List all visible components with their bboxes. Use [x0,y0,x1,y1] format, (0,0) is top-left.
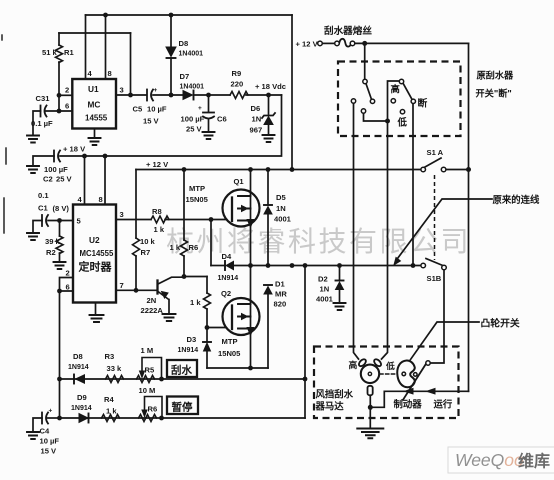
edge mark top left [1,35,3,40]
svg-text:MR: MR [275,290,287,299]
fuse terminals [335,41,340,46]
wire contact P6 to sense rail [412,104,414,264]
motor wiper [361,365,379,383]
svg-text:C1: C1 [38,204,48,213]
diode D9 [79,414,88,423]
svg-text:1N4001: 1N4001 [179,51,204,58]
svg-text:+ 18 V: + 18 V [63,145,86,154]
wire fuse to right corner [355,42,469,44]
pause label box [167,397,198,415]
svg-text:2: 2 [66,269,70,278]
svg-text:C5: C5 [133,105,143,114]
potentiometer R6b [139,415,157,422]
svg-text:0.1 µF: 0.1 µF [31,119,53,128]
arrow brake pointer [405,389,414,395]
svg-text:R9: R9 [232,69,242,78]
svg-text:14555: 14555 [85,114,108,123]
svg-text:开关"断": 开关"断" [476,88,512,99]
svg-text:C31: C31 [36,94,51,103]
wire +18V loop to C2 [60,95,282,156]
svg-text:暂停: 暂停 [172,401,193,414]
arrow run pointer [427,389,436,395]
ground C1 [27,233,39,240]
diode D8 [170,15,172,47]
svg-text:51 k: 51 k [42,48,58,57]
timer U2 box [73,205,116,303]
wire pause line [60,417,306,419]
ground R2 [54,262,66,269]
resistor R3 [106,376,124,383]
wire U1 ground stub [94,129,96,138]
dashed box wiper motor [314,347,459,419]
diode D3 [206,328,208,342]
svg-text:断: 断 [418,97,428,110]
svg-text:MTP: MTP [222,337,238,346]
switch lever2 [403,84,411,99]
wire contact P4 L [364,113,388,121]
wire U1 pin4 [85,15,87,79]
svg-text:8: 8 [99,195,103,204]
ground C4 [27,432,39,439]
svg-text:2: 2 [65,86,69,95]
svg-text:D4: D4 [222,252,232,261]
mosfet Q1 [223,190,260,227]
svg-text:R1: R1 [64,48,74,57]
wire U2 pin3 [116,219,151,221]
resistor R9 [230,92,248,99]
cam pivot circles [402,372,406,376]
switch contact P1 [363,79,367,83]
wire switch riser to P5 [388,81,400,121]
svg-text:+ 12 V: + 12 V [146,160,169,169]
watermark WeeQoo box [448,447,554,473]
svg-text:1N914: 1N914 [68,364,89,371]
svg-text:D1: D1 [275,280,285,289]
switch S1B lever [426,259,442,266]
svg-text:维库: 维库 [518,452,550,471]
wire U1 pin8 [105,15,107,79]
svg-text:D2: D2 [318,275,328,284]
svg-text:967: 967 [250,126,263,135]
resistor 1k Q2 gate [206,277,208,328]
svg-text:3: 3 [120,210,124,219]
edge mark left lower [3,198,5,233]
switch contact P2 [370,99,374,103]
wire collector node [184,276,207,278]
ground D6 [263,135,275,142]
svg-text:6: 6 [66,283,70,292]
resistor R1 [58,33,60,95]
wire U2 pin2 pin6 bus [60,278,74,419]
svg-text:+ 12 V: + 12 V [296,40,319,49]
svg-text:820: 820 [274,300,287,309]
svg-text:U1: U1 [88,84,99,94]
dashed link S1A S1B [434,175,436,260]
wire timing node vertical [304,266,306,419]
svg-text:Q1: Q1 [234,177,245,186]
wire S1B to cam contact [430,270,444,363]
wire run line [370,391,468,407]
switch contact P3 [351,99,355,103]
resistor R2 [59,221,61,262]
svg-text:1N: 1N [276,204,286,213]
svg-text:R3: R3 [105,352,115,361]
svg-text:MTP: MTP [189,184,205,193]
switch S1B contacts [421,263,426,268]
mosfet Q2 [223,298,260,335]
wire U2 pin7 [116,289,158,291]
svg-text:器马达: 器马达 [315,401,345,412]
svg-text:1 k: 1 k [190,298,201,307]
svg-text:100 µF: 100 µF [44,165,68,174]
wire U1 pin6 [45,95,72,111]
svg-text:定时器: 定时器 [79,260,113,274]
capacitor C5 [146,90,148,101]
diode D5 [267,170,269,205]
resistor R8 [151,216,169,223]
svg-text:制动器: 制动器 [394,399,423,410]
svg-text:1 k: 1 k [154,225,165,234]
svg-text:3: 3 [120,86,124,95]
svg-text:10 µF: 10 µF [147,105,167,114]
svg-text:高: 高 [349,359,358,370]
svg-text:D8: D8 [179,39,189,48]
wire Q2 source node [207,367,268,369]
cam switch lever [403,364,426,400]
wire S1A to corner [446,169,469,171]
svg-text:低: 低 [385,360,395,371]
svg-text:7: 7 [120,281,124,290]
svg-text:Q2: Q2 [221,289,231,298]
ground D2 [334,303,346,310]
capacitor C2 [53,151,55,162]
svg-text:2N: 2N [147,296,157,305]
switch lever1 [366,84,371,99]
svg-text:8: 8 [108,69,112,78]
svg-text:1 M: 1 M [141,346,154,355]
svg-text:MC: MC [88,100,101,110]
svg-text:100 µF: 100 µF [181,115,205,124]
svg-text:R6: R6 [189,243,199,252]
switch S1A lever [425,158,441,167]
capacitor C6 [208,95,210,112]
svg-text:220: 220 [231,80,244,89]
wire motor brush dashed low [380,373,397,375]
wire U1 pin2 [59,94,72,96]
resistor R4 [102,415,120,422]
wire +12V rail [136,169,421,171]
ground motor [369,407,371,427]
svg-text:MC14555: MC14555 [80,249,114,258]
diode D8b 1N914 [73,375,75,384]
switch contact P7 [391,99,395,103]
svg-text:高: 高 [391,84,400,95]
svg-text:R7: R7 [141,248,151,257]
svg-text:4001: 4001 [274,215,292,224]
svg-text:1N914: 1N914 [218,275,239,282]
svg-text:D8: D8 [73,352,83,361]
svg-text:C2: C2 [43,175,53,184]
svg-text:10 µF: 10 µF [40,437,60,446]
svg-text:+ 18 Vdc: + 18 Vdc [255,82,286,91]
wire top +12V rail U1 [86,14,293,16]
svg-text:D3: D3 [187,335,197,344]
svg-text:+: + [198,105,202,112]
svg-text:15 V: 15 V [41,447,58,456]
svg-text:6: 6 [65,102,69,111]
svg-text:R4: R4 [104,395,114,404]
svg-text:25 V: 25 V [186,125,203,134]
svg-text:风挡刮水: 风挡刮水 [316,389,354,400]
svg-text:C4: C4 [40,427,50,436]
svg-text:低: 低 [397,117,408,128]
svg-text:C6: C6 [217,115,227,124]
svg-text:原刮水器: 原刮水器 [477,70,515,81]
ground C2 [27,166,39,173]
cam contact run [426,361,430,365]
svg-text:10 M: 10 M [139,386,156,395]
wire fuse feed [322,42,335,44]
ground C31 [27,136,39,143]
wire pin3 feedback vertical [130,33,132,95]
wire motor bottom [369,395,371,407]
wire sense rail with diode D4 [210,220,212,266]
svg-text:1 k: 1 k [170,243,181,252]
svg-text:1N4001: 1N4001 [180,84,205,91]
ground Q3 emitter [163,314,176,321]
svg-text:刮水: 刮水 [171,364,192,377]
svg-text:+: + [49,408,53,415]
svg-text:凸轮开关: 凸轮开关 [481,317,520,330]
cam switch crescent [397,360,415,387]
edge mark left upper [5,148,7,164]
svg-text:1N: 1N [320,285,330,294]
fuse 刮水器熔丝 [339,39,351,47]
svg-text:WeeQoo: WeeQoo [455,450,524,470]
svg-text:原来的连线: 原来的连线 [493,194,541,205]
resistor R7 [135,170,137,291]
terminal +12V [318,41,323,46]
wire R1 top rail [59,32,131,34]
svg-text:2222A: 2222A [141,306,164,315]
zener diode D6 [268,95,270,114]
svg-text:1N: 1N [252,115,262,124]
svg-text:U2: U2 [89,235,100,245]
diode D2 [339,266,341,281]
resistor R6 1k collector pullup [183,170,185,277]
svg-text:R8: R8 [152,207,162,216]
svg-text:0.1: 0.1 [38,191,49,200]
svg-text:15N05: 15N05 [186,195,209,204]
svg-text:D7: D7 [180,72,190,81]
svg-text:(8 V): (8 V) [53,204,70,213]
wire Q2 gate [207,327,232,329]
ground U1 [89,138,101,145]
op-amp U1 box [72,79,116,129]
capacitor C31 [40,106,42,117]
svg-text:4001: 4001 [316,295,334,304]
svg-text:1N914: 1N914 [178,347,199,354]
svg-text:33 k: 33 k [107,364,123,373]
ground C6 [203,132,215,139]
svg-text:10 k: 10 k [140,237,156,246]
wire U2 pin8 [104,156,106,205]
pointer 凸轮开关 [411,322,480,360]
svg-text:39 k: 39 k [45,237,61,246]
svg-text:R2: R2 [46,248,56,257]
dashed box original wiper switch [338,62,461,137]
svg-text:S1B: S1B [427,274,442,283]
diode D1 [264,284,272,286]
wire U2 pin4 [84,156,86,205]
transistor Q3 2N2222A [156,281,158,294]
svg-text:D9: D9 [77,393,87,402]
wire U2 pin5 [48,220,73,222]
switch contact P4 [361,109,365,113]
diode D7 [183,91,193,100]
wire charge pump vertical [291,15,293,170]
svg-text:R5: R5 [145,366,155,375]
wire contact P3 to motor left [354,103,359,359]
wipe label box [167,360,197,377]
ground U2 [90,315,104,322]
capacitor C4 [48,417,60,419]
wire wipe line [60,378,306,380]
switch contact P6 [411,99,415,103]
capacitor C1 [41,215,43,226]
wire U2 ground stub [95,303,97,315]
svg-text:D5: D5 [276,193,286,202]
svg-text:S1 A: S1 A [427,148,444,157]
svg-text:刮水器熔丝: 刮水器熔丝 [324,25,372,37]
potentiometer R5 [137,376,155,383]
wire U1 pin3 [116,94,146,96]
wire right vertical to run contact [468,43,470,391]
wire fuse to switch P1 [364,43,366,79]
switch contact P8 [400,110,404,114]
svg-text:25 V: 25 V [56,175,73,184]
node dots [103,13,108,18]
svg-text:+: + [154,87,158,94]
wire switch common down to motor right [382,121,388,359]
svg-text:15 V: 15 V [143,117,160,126]
svg-text:运行: 运行 [434,399,453,410]
svg-text:R6: R6 [148,405,158,414]
switch contact P5 [399,79,403,83]
svg-text:1 k: 1 k [106,407,117,416]
svg-text:D6: D6 [251,104,261,113]
switch S1A contacts [421,167,426,172]
svg-text:15N05: 15N05 [218,349,241,358]
svg-text:1N914: 1N914 [71,405,92,412]
pointer 原来的连线 [397,199,493,260]
